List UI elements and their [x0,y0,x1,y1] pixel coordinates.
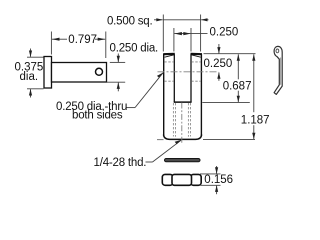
dimension 0.375 dia. arrows [30,49,32,57]
clevis body bottom edge [164,135,202,140]
washer [165,159,201,162]
svg-text:0.250: 0.250 [210,26,239,38]
body top extension line [204,53,256,55]
cotter pin eye hole [276,49,279,53]
dimension 0.500 sq. line [154,19,163,21]
svg-text:both sides: both sides [72,109,123,121]
svg-text:0.156: 0.156 [204,174,233,186]
dimension 0.250 hole position arrows [218,44,220,53]
leader 1/4-28 thd. [146,161,153,163]
svg-text:dia.: dia. [20,71,39,83]
svg-text:0.250: 0.250 [204,58,233,70]
threaded hole hidden lines [172,103,174,137]
hex nut [162,174,173,185]
clevis body right prong top [191,53,203,55]
clevis body right prong outer edge [200,54,202,135]
leader 0.250 dia. thru [126,107,135,109]
dimension 0.250 slot extension lines [173,28,175,52]
svg-text:1/4-28 thd.: 1/4-28 thd. [94,157,147,169]
dimension 0.375 dia. ticks [27,56,44,58]
dimension 0.797 line [52,38,67,40]
dimension 0.250 dia. arrows [117,54,119,63]
dimension 0.250 dia. (pin shaft) extension lines [110,61,125,63]
svg-text:0.687: 0.687 [223,80,252,92]
clevis slot bottom [174,101,192,103]
clevis pin hole [96,68,103,75]
cotter pin legs seam [280,58,282,85]
clevis body right prong inner edge [190,54,192,102]
dimension 0.797 extension lines [50,32,52,55]
svg-text:0.250 dia.: 0.250 dia. [110,43,159,55]
body bottom extension line [203,138,255,140]
threaded hole centerline [181,103,183,144]
clevis body left prong outer edge [163,54,165,135]
dimension 0.156 extension lines [200,173,221,175]
cross hole hidden line bottom [164,80,174,82]
svg-text:1.187: 1.187 [241,114,270,126]
dimension 0.156 arrows [216,166,218,174]
clevis pin head [44,57,52,89]
slot bottom extension line [202,101,250,103]
dimension 0.500 sq. extension lines [162,15,164,52]
cross hole centerline [158,71,219,73]
clevis pin shaft [52,63,107,83]
clevis body left prong inner edge [173,54,175,102]
cross hole hidden line top [164,61,174,63]
clevis body left prong top [163,53,175,55]
svg-text:0.797: 0.797 [68,34,97,46]
cotter pin body [274,46,282,94]
svg-text:0.500 sq.: 0.500 sq. [107,15,153,27]
dimension 0.687 line [237,54,239,79]
dimension 1.187 line [253,54,255,112]
dimension 0.250 slot line [174,33,207,35]
